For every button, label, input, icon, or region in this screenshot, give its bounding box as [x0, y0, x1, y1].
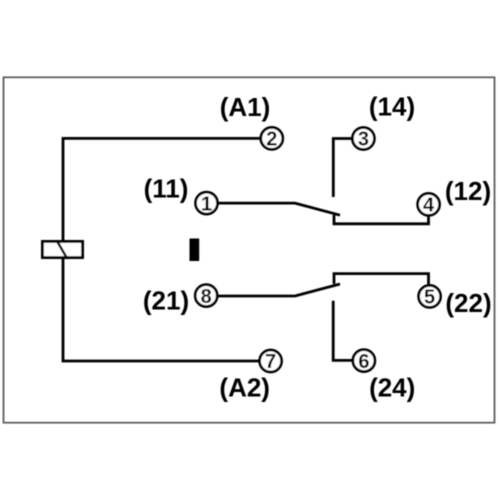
svg-text:(A2): (A2): [219, 373, 270, 403]
svg-text:(14): (14): [369, 92, 415, 122]
svg-text:(22): (22): [445, 288, 491, 318]
svg-text:(11): (11): [144, 174, 189, 204]
svg-text:4: 4: [423, 195, 435, 217]
svg-text:(12): (12): [445, 176, 491, 206]
svg-text:1: 1: [201, 193, 212, 215]
svg-text:8: 8: [201, 286, 212, 308]
svg-text:(A1): (A1): [220, 92, 271, 122]
svg-text:5: 5: [424, 287, 435, 309]
svg-text:7: 7: [265, 351, 276, 373]
svg-text:3: 3: [358, 129, 369, 151]
svg-text:6: 6: [358, 351, 369, 373]
svg-text:(24): (24): [369, 373, 415, 403]
svg-text:(21): (21): [143, 286, 189, 316]
svg-text:2: 2: [266, 129, 277, 151]
